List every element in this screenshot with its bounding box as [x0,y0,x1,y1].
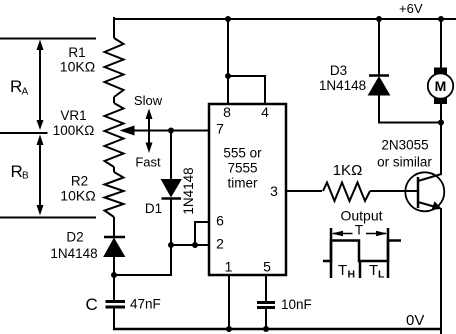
svg-text:7: 7 [216,121,224,137]
svg-text:3: 3 [270,183,278,199]
wire: pin 2 to D1 line [171,244,209,246]
transistor Q1 base bar [417,177,420,208]
capacitor C2 10nF plates [257,301,275,304]
svg-text:L: L [378,269,385,281]
junction: D2/D1 net to capacitor C [111,272,117,278]
wire: junction down to collector of Q1 [440,123,442,176]
svg-text:M: M [435,78,447,94]
dimension arrow Slow/Fast [148,117,150,145]
diode D1 (anode triangle, pointing down) [162,180,182,197]
wire: bottom 0V rail [113,328,442,331]
svg-text:Fast: Fast [135,155,161,170]
svg-text:R: R [10,77,22,96]
diode D1 (cathode bar) [162,197,182,200]
potentiometer VR1 (track) [105,103,124,167]
waveform: left period tick [330,228,333,278]
svg-text:D1: D1 [145,201,162,216]
diode D3 (cathode bar) [369,74,389,77]
wire: top +6V supply rail [113,18,456,20]
svg-text:10KΩ: 10KΩ [60,59,95,75]
resistor R2 [105,172,124,217]
svg-text:B: B [22,171,29,182]
diode D2 (anode triangle, pointing up) [104,239,125,257]
svg-text:+6V: +6V [399,1,423,16]
junction: D3 on +6V rail [376,16,382,22]
waveform: right period tick [387,228,390,278]
svg-text:7555: 7555 [227,161,257,176]
measurement line RB bottom boundary [0,217,96,219]
svg-text:10KΩ: 10KΩ [60,188,95,204]
svg-text:T: T [369,262,378,279]
svg-text:1: 1 [225,259,233,275]
wire: 10nF to 0V rail [265,307,267,330]
wire: D2 to node C [113,256,115,300]
svg-text:2: 2 [216,236,224,252]
svg-text:6: 6 [216,213,224,229]
wire: VR1 to R2 [113,167,115,172]
wire: R2 to D2 [113,217,115,236]
junction: D3 / motor bottom / collector [438,120,444,126]
junction: pin 1 on 0V rail [226,326,232,332]
wire: pin 6 bracket [195,222,209,245]
wire: capacitor C to 0V rail [113,306,115,330]
wire: motor bottom to junction [440,104,442,123]
waveform: T dimension line with arrows [333,233,353,235]
svg-text:0V: 0V [406,312,424,329]
wire: D3 anode down and right to motor bottom [379,95,441,123]
motor M1 top terminal block [434,68,447,75]
waveform: output square wave [323,241,401,262]
svg-text:4: 4 [261,104,269,120]
transistor Q1 body circle [405,172,444,211]
junction: wiper / D1 [168,128,174,134]
wire: emitter down to 0V rail and below [440,208,442,334]
junction: pin 4 tap on pin 8 wire [225,73,231,79]
svg-text:1KΩ: 1KΩ [333,162,363,179]
svg-text:D2: D2 [66,230,83,245]
wire: motor to +6V rail [440,19,442,68]
svg-text:Output: Output [340,208,382,224]
motor M1 body circle [428,73,453,98]
measurement line RA/RB middle boundary [0,132,48,134]
svg-text:47nF: 47nF [130,297,161,312]
svg-text:100KΩ: 100KΩ [53,123,95,138]
transistor Q1 collector lead [418,174,442,181]
svg-text:8: 8 [223,104,231,120]
diode D2 (cathode bar) [104,236,125,239]
svg-text:T: T [355,223,363,238]
wire: 1K resistor to transistor base [370,190,418,192]
transistor Q1 emitter arrowhead [432,201,443,210]
motor M1 bottom terminal block [434,98,447,104]
wire: D1 cathode down to pin2 net and corner to D2 junction [114,198,171,275]
wiper arrow of VR1 [120,126,135,136]
measurement line RA top boundary [0,38,96,40]
svg-text:timer: timer [228,176,259,191]
waveform: TH/TL divider tick [359,261,362,278]
dimension arrow RA [39,43,41,127]
svg-text:10nF: 10nF [281,297,312,312]
wire: left column from +6V rail to R1 [113,18,114,38]
dimension arrow RB [39,139,41,212]
svg-text:5: 5 [263,259,271,275]
svg-text:555 or: 555 or [223,146,262,161]
resistor R3 1K [323,183,370,202]
junction: pin 6 bracket on pin 2 wire [192,242,198,248]
IC U1 555 timer box [209,104,286,275]
wire: D3 to +6V rail [378,19,380,75]
svg-text:1N4148: 1N4148 [181,167,196,214]
svg-text:R2: R2 [71,174,88,189]
wire: pin 4 branch [228,76,265,104]
svg-text:2N3055: 2N3055 [381,138,428,153]
svg-text:VR1: VR1 [60,108,86,123]
svg-text:T: T [338,262,347,279]
svg-text:Slow: Slow [134,93,163,108]
junction: pin8 wire on +6V rail [225,16,231,22]
junction: 10nF on 0V rail [263,326,269,332]
svg-text:R: R [11,162,23,181]
svg-text:1N4148: 1N4148 [50,246,97,261]
transistor Q1 emitter lead [418,202,439,208]
wire: pin 1 to 0V rail [228,275,230,330]
svg-text:or similar: or similar [377,155,432,170]
junction: motor wire on +6V rail [438,16,444,22]
wire: pin 5 to capacitor 10nF [265,275,267,302]
svg-text:H: H [348,269,356,281]
wire: pin 8 to +6V rail [227,19,229,104]
diode D3 (anode triangle, pointing up) [369,77,390,95]
wire: VR1 wiper to pin 7 [132,130,209,132]
svg-text:C: C [86,295,98,314]
svg-text:A: A [22,87,29,98]
wire: wiper junction down to D1 [170,131,172,181]
wire: R1 to VR1 [113,97,115,103]
svg-text:D3: D3 [330,63,347,78]
junction: D1 line / pin 2 wire [168,242,174,248]
svg-text:1N4148: 1N4148 [319,78,366,93]
capacitor C plates [106,300,126,303]
resistor R1 [105,38,124,97]
wire: pin 3 to 1K resistor [286,190,322,192]
